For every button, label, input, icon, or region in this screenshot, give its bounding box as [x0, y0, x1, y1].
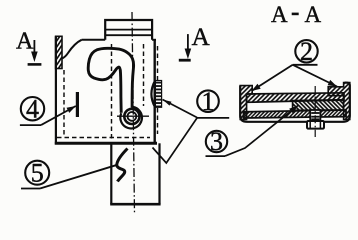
- callout 3 underline: [206, 155, 226, 157]
- section mark A (left): arrowhead: [31, 52, 38, 63]
- leader 3 arrowhead: [289, 106, 298, 114]
- leader 2a arrowhead: [252, 84, 261, 91]
- section mark A (left): arrow shaft: [33, 40, 35, 53]
- section mark A (right): arrowhead: [185, 49, 192, 60]
- svg-text:A: A: [271, 2, 288, 27]
- leader 1a to spring washer: [163, 100, 198, 118]
- leader 2a to left wall lip: [252, 65, 293, 91]
- svg-text:A: A: [192, 24, 210, 51]
- section mark A (right): arrow shaft: [187, 34, 189, 49]
- leader 1a arrowhead: [163, 100, 172, 106]
- tube collar band line 1: [105, 29, 152, 31]
- leader 4 arrowhead: [67, 106, 76, 113]
- hidden line: shaft right edge upper part: [157, 46, 159, 80]
- callout 5 underline: [21, 188, 40, 190]
- tube collar band line 2: [105, 34, 152, 36]
- lower shaft bottom edge: [110, 203, 160, 206]
- J-shaped cam slot: [88, 48, 133, 112]
- section mark A (right): cutting plane foot: [179, 59, 191, 62]
- leader 1b to shaft corner: [153, 118, 198, 163]
- lower shaft right edge: [158, 143, 160, 204]
- callout 1 underline: [196, 117, 229, 119]
- lower shaft left edge: [110, 143, 112, 204]
- bolt shank line through flange left: [309, 121, 311, 128]
- body bottom edge: [55, 142, 157, 145]
- bolt thread tick 3: [311, 118, 319, 120]
- tube collar outline at top: [105, 20, 152, 40]
- top plate strip (hatched): [247, 93, 344, 103]
- callout circle 4: [21, 97, 44, 120]
- svg-text:A: A: [16, 28, 34, 54]
- spring pin squiggle on shaft (item 5 target): [117, 149, 128, 182]
- leader 2b to right wall lip: [293, 65, 337, 87]
- body top edge right stub: [152, 39, 156, 41]
- callout 4 underline: [20, 124, 41, 126]
- hidden line: left wall inner edge: [63, 70, 65, 136]
- channel shell outline: [240, 83, 350, 122]
- hidden line: bore right edge inside body: [143, 44, 145, 106]
- bolt shank line through flange right: [319, 121, 321, 128]
- left wall + lip (hatched): [240, 86, 252, 120]
- bolt shank: [310, 110, 320, 121]
- leader 4 to lever pin: [41, 106, 76, 125]
- callout circle 3: [206, 131, 227, 152]
- svg-text:5: 5: [31, 158, 44, 187]
- slot round end: [120, 107, 142, 129]
- centerline (vertical dash-dot axis): [132, 12, 135, 214]
- crosshair of pin hole: [117, 115, 149, 117]
- bottom plate strip (hatched): [244, 110, 347, 118]
- body left edge: [55, 36, 57, 144]
- svg-text:2: 2: [300, 37, 313, 66]
- body right edge: [153, 40, 155, 144]
- svg-text:3: 3: [210, 127, 223, 156]
- hidden line: shaft right edge lower part: [157, 108, 159, 134]
- pin hole at slot end: outer circle: [124, 109, 139, 124]
- leader 2b arrowhead: [328, 80, 337, 87]
- spring washer hatched strip: [155, 81, 161, 108]
- left hatched side bar: [56, 36, 62, 68]
- bolt thread tick 1: [311, 112, 319, 114]
- svg-text:A: A: [305, 2, 322, 27]
- leader 3 to clamp block in section: [225, 106, 298, 157]
- bolt thread tick 2: [311, 116, 319, 118]
- lever pin (item 4 target): [76, 92, 79, 117]
- hidden line: horizontal bottom of bore: [57, 137, 150, 139]
- leader 5 to spring pin: [40, 165, 116, 188]
- pin hole inner circle: [127, 112, 136, 121]
- callout circle 5: [25, 161, 49, 185]
- spring washer on right edge (item 1 target): arc: [151, 81, 155, 108]
- clamp block (cross-hatched, item 3): [293, 100, 344, 111]
- hidden line: shaft left edge inside body: [111, 44, 113, 142]
- bolt head flange: [307, 121, 324, 129]
- body shoulder curve: [62, 40, 81, 59]
- svg-text:1: 1: [202, 87, 215, 116]
- callout circle 1: [197, 90, 219, 112]
- svg-text:4: 4: [26, 94, 39, 123]
- callout circle 2: [295, 40, 317, 62]
- bolt centerline: [314, 86, 316, 137]
- body top edge: [82, 39, 106, 41]
- right wall + lip (hatched): [328, 83, 350, 120]
- callout 2 underline: [293, 64, 318, 66]
- section mark A (left): cutting plane foot: [28, 63, 42, 66]
